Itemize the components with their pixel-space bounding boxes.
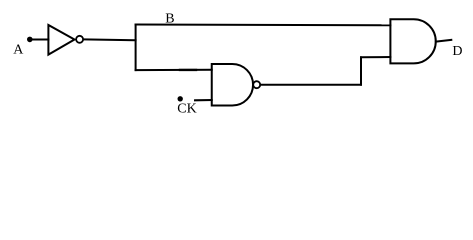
wire branch to NAND top input bbox=[136, 69, 212, 71]
wire overlap segment on NAND input wire bbox=[180, 69, 196, 71]
wire branch vertical at node B bbox=[135, 25, 137, 71]
wire NAND output vertical riser bbox=[360, 57, 362, 84]
wire net B horizontal to AND gate bbox=[136, 24, 391, 27]
node CK terminal dot bbox=[178, 96, 183, 101]
wire AND output to D bbox=[436, 40, 452, 42]
inverter U1 output bubble bbox=[76, 36, 83, 43]
wire NAND output horizontal bbox=[260, 84, 361, 86]
wire to AND bottom input bbox=[361, 56, 390, 58]
wire A to inverter input bbox=[31, 39, 48, 41]
svg-text:CK: CK bbox=[177, 102, 196, 117]
nand-gate U2 output bubble bbox=[253, 81, 260, 88]
wire CK to NAND bottom input bbox=[195, 99, 212, 101]
node A terminal dot bbox=[27, 37, 33, 43]
wire inverter output to branch node bbox=[84, 38, 136, 41]
svg-text:D: D bbox=[452, 44, 462, 59]
svg-text:A: A bbox=[13, 43, 24, 58]
inverter U1 triangle bbox=[48, 25, 74, 55]
and-gate U3 body bbox=[390, 19, 435, 63]
nand-gate U2 body bbox=[212, 64, 253, 106]
